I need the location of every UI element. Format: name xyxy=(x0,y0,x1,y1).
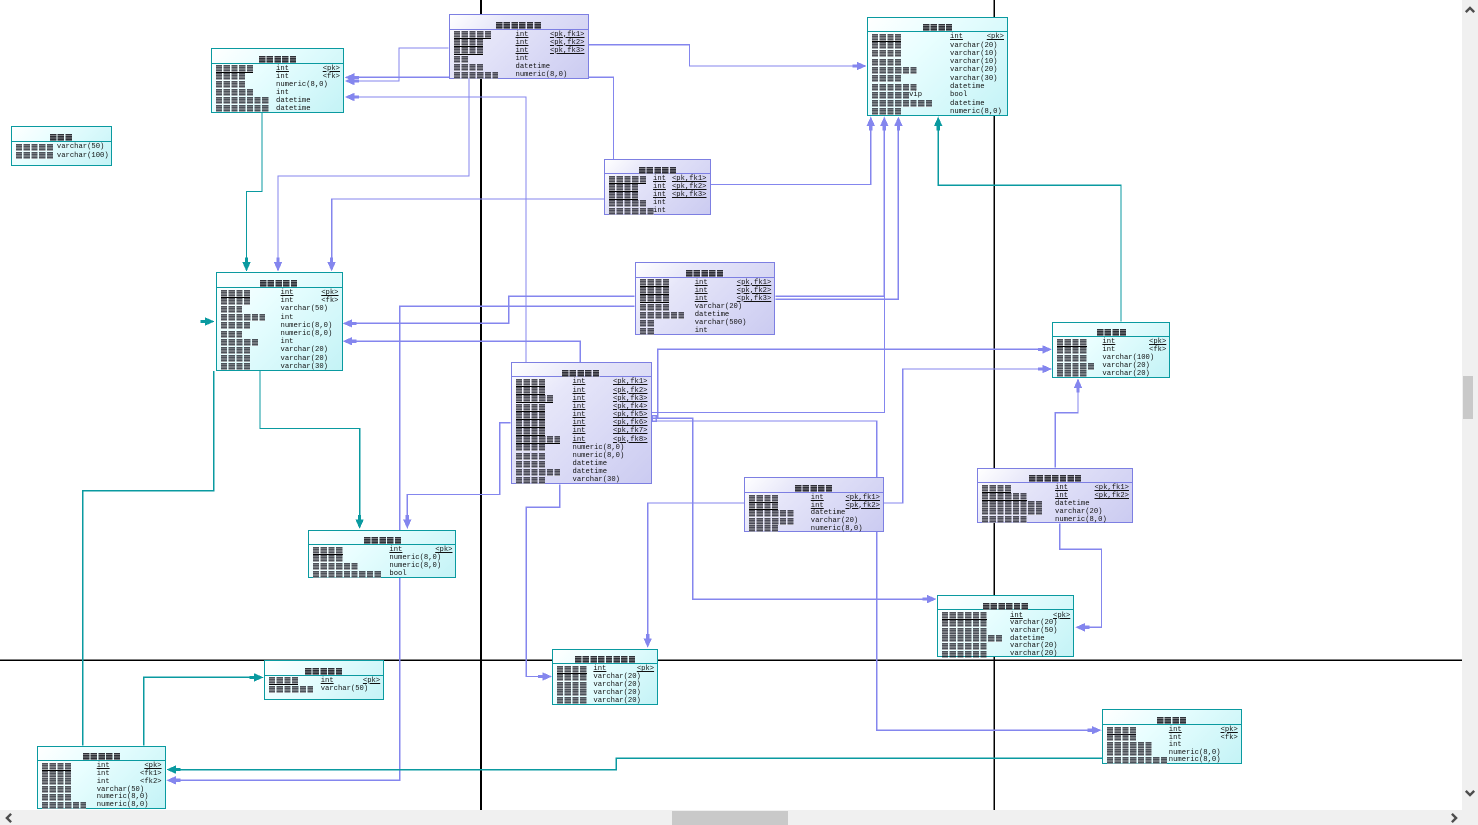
wire fk: offcampus-pay to offcampus-rider xyxy=(1060,523,1102,631)
page boundary vertical line 1 xyxy=(480,0,482,810)
scrollbar chevron down xyxy=(1462,785,1478,801)
wire fk: coupon-info to merchant xyxy=(242,113,262,272)
vertical scrollbar xyxy=(1462,0,1478,810)
table 集单优惠表 (T_jidan) xyxy=(604,159,711,215)
scrollbar chevron up xyxy=(1462,2,1478,18)
wire fk: review2 to user xyxy=(775,117,902,300)
table 满减方案表 (T_manjian) xyxy=(308,530,456,578)
wire fk: group-order to user xyxy=(711,117,876,185)
wire fk: rider-pay to campus-rider xyxy=(644,503,744,648)
scrollbar chevron left xyxy=(1,810,17,825)
table 商品详情表 (T_xiangqing) xyxy=(37,746,166,809)
table 配送地址 (T_peisong) xyxy=(1052,322,1170,378)
table 商品评价表 (T_pingjia) xyxy=(635,262,776,335)
wire fk: product-detail to merchant xyxy=(83,371,214,746)
wire fk: review to merchant xyxy=(343,296,635,327)
wire fk: order to address xyxy=(652,345,1053,418)
table 中转站 (T_zhongzhuan) xyxy=(11,126,112,166)
wire fk: product-detail to category xyxy=(144,673,264,745)
wire fk: order to campus-rider xyxy=(526,484,560,680)
wire fk: group-order to merchant xyxy=(327,199,604,272)
wire fk: group-order to coupon-info xyxy=(345,73,614,159)
table 商品订单表 (T_dingdan) xyxy=(511,362,652,485)
wire arrow stub into merchant left edge xyxy=(201,317,215,325)
wire fk: order to user xyxy=(652,119,885,413)
wire fk: review to user xyxy=(775,117,888,297)
wire fk: review to product-detail xyxy=(166,306,634,784)
vertical scrollbar thumb xyxy=(1463,376,1473,419)
table 商家信息表 (T_shangjia) xyxy=(216,272,343,370)
wire fk: order-detail to product-detail xyxy=(166,758,1101,774)
wire fk: order to discount-plan xyxy=(403,423,510,529)
table 校外骑手信息 (T_xiaowai_info) xyxy=(937,595,1074,658)
table 优惠券持有表 (T_youhiquan_chiyou) xyxy=(449,14,589,79)
scrollbar chevron right xyxy=(1446,810,1462,825)
table 骑手入账表 (T_qishou_ru) xyxy=(744,477,884,532)
wire fk: merchant to discount-plan xyxy=(260,371,364,529)
table 校外骑手入账表 (T_xiaowai_ru) xyxy=(977,468,1133,524)
horizontal scrollbar thumb xyxy=(672,811,788,825)
table 用户信息 (T_user) xyxy=(867,17,1008,117)
table 订单详情 (T_dingdan_xq) xyxy=(1102,709,1242,764)
wire fk: coupon-hold to user xyxy=(589,45,867,70)
wire fk: coupon-hold to coupon-info xyxy=(345,48,449,85)
wire arrow stub into order right edge xyxy=(652,416,656,422)
wire fk: coupon-hold to merchant xyxy=(274,79,469,272)
wire fk: rider-pay to address xyxy=(884,365,1052,503)
table 优惠券信息 (T_youhiquan_info) xyxy=(211,48,344,113)
wire fk: order to order-detail xyxy=(652,421,1102,734)
wire fk: order to merchant xyxy=(343,337,581,362)
table 商品类别表 (T_leibie) xyxy=(264,660,385,700)
wire fk: offcampus-pay to address xyxy=(1055,379,1082,468)
wire fk: order to offcampus-rider xyxy=(652,418,937,603)
table 校内兼职骑手信息 (T_xiaonei) xyxy=(552,649,658,705)
wire fk: address to user xyxy=(934,117,1121,322)
page boundary horizontal line xyxy=(0,659,1462,661)
horizontal scrollbar xyxy=(0,810,1478,825)
wire fk: order to coupon-info xyxy=(345,93,526,362)
page boundary vertical line 2 xyxy=(993,0,995,810)
